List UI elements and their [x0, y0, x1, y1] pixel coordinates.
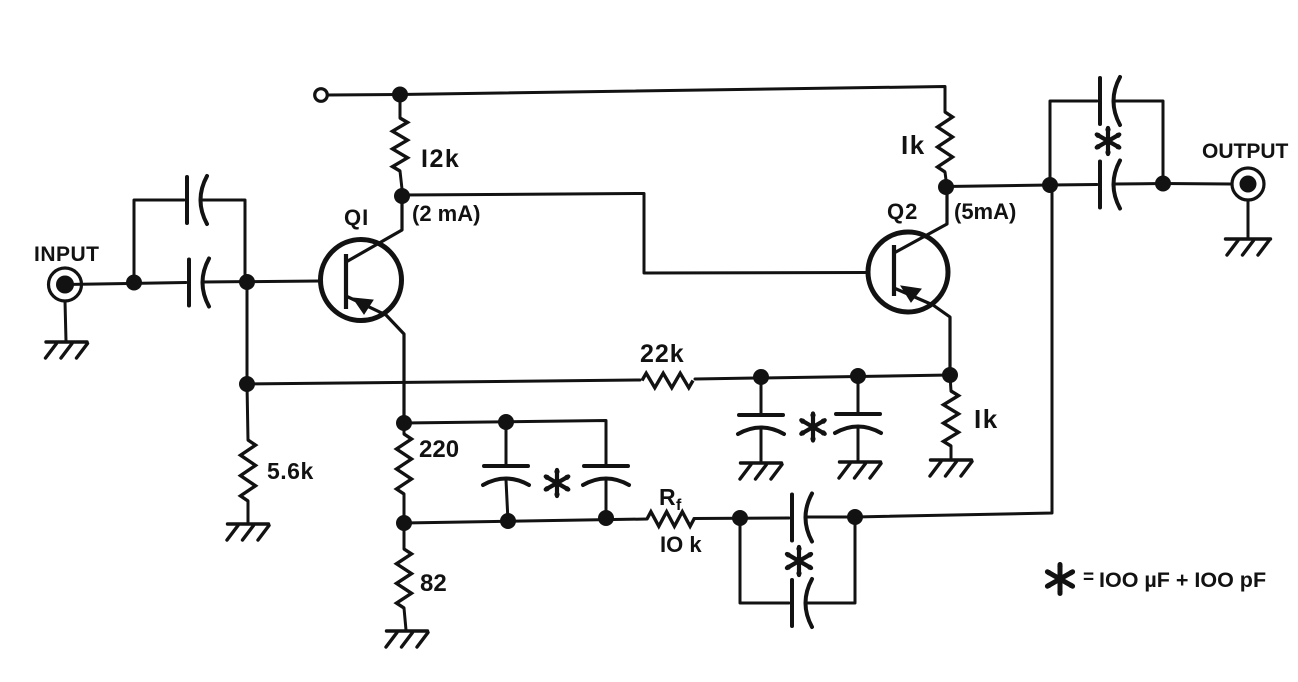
input jack J1 [49, 268, 82, 301]
node: right cap bottom [598, 510, 614, 526]
node: bypass cap A top [753, 369, 769, 385]
wire: to output feedback vertical [855, 185, 1052, 517]
ground (82) [387, 629, 428, 632]
capacitor bypass B [835, 376, 881, 461]
node: supply/12k junction [392, 87, 408, 103]
svg-text:=: = [1083, 567, 1094, 588]
legend star [1046, 564, 1073, 595]
capacitor pair left B [583, 466, 629, 518]
ground (bypass B) [840, 460, 881, 463]
resistor 22k [642, 373, 693, 388]
capacitor pair left A [483, 422, 529, 521]
star mark between bypass caps [800, 413, 826, 442]
node: output junction [1042, 177, 1058, 193]
node: series cap pair left [732, 510, 748, 526]
node: input split [126, 275, 142, 291]
ground (output jack) [1226, 237, 1271, 240]
wire: series cap to right node [806, 516, 855, 519]
svg-text:220: 220 [419, 436, 459, 463]
capacitor C1 (series input, lower) [187, 260, 191, 306]
node: left cap top [498, 414, 514, 430]
resistor 12k [393, 95, 408, 190]
resistor Rf 10k [647, 512, 694, 527]
svg-text:IOO µF + IOO pF: IOO µF + IOO pF [1099, 568, 1266, 592]
resistor 82 [397, 523, 412, 630]
node: series cap pair right [847, 509, 863, 525]
wire: 22k to Q2 emitter node [695, 375, 950, 379]
wire: feedback node to 22k [247, 380, 640, 384]
svg-text:I2k: I2k [421, 145, 460, 173]
node: 220/82 junction [396, 515, 412, 531]
svg-text:R: R [659, 484, 676, 510]
node: Q2 emitter / 1k [942, 367, 958, 383]
svg-text:OUTPUT: OUTPUT [1202, 140, 1289, 163]
wire: 10k to series cap [694, 517, 789, 521]
star mark lower feedback pair [786, 546, 813, 576]
svg-text:QI: QI [344, 205, 369, 230]
ground (bypass A) [741, 461, 782, 464]
wire: output jack to ground [1247, 200, 1250, 238]
transistor Q2 [868, 190, 950, 375]
star mark between left caps [545, 469, 570, 497]
star mark output pair [1096, 127, 1121, 155]
power terminal (open circle) [315, 89, 328, 102]
wire: supply rail [328, 87, 946, 107]
wire: upper cap branch right side [201, 200, 245, 282]
ground (1k emitter) [931, 458, 972, 461]
node: output right junction [1155, 176, 1171, 192]
svg-text:5.6k: 5.6k [267, 458, 314, 484]
capacitor C2 (input bypass, upper) [185, 177, 189, 223]
svg-text:22k: 22k [640, 340, 685, 368]
ground (5.6k) [228, 522, 269, 525]
capacitor feedback lower branch [740, 517, 855, 627]
wire: input jack to C1 [65, 283, 186, 285]
wire: C1 to Q1 base [203, 281, 320, 282]
resistor 1k (collector load) [938, 106, 953, 180]
wire: Q1 collector to Q2 base [402, 194, 866, 274]
svg-text:INPUT: INPUT [34, 243, 100, 266]
svg-text:Ik: Ik [901, 130, 926, 160]
svg-text:IO k: IO k [660, 532, 702, 557]
capacitor output series (main) [1050, 161, 1163, 209]
node: bypass cap B top [850, 368, 866, 384]
node: Q1 base join [239, 274, 255, 290]
node: Q2 collector (5mA) [938, 179, 954, 195]
svg-text:f: f [676, 497, 682, 514]
node: feedback left [239, 376, 255, 392]
capacitor feedback series (upper) [790, 495, 794, 541]
resistor 1k (Q2 emitter) [944, 375, 959, 459]
ground (input jack) [46, 340, 87, 343]
wire: upper branch right [1114, 101, 1163, 183]
wire: 220/82 junction to 10k [404, 519, 647, 523]
svg-text:(2 mA): (2 mA) [412, 201, 480, 226]
node: Q1 collector (2mA) [394, 188, 410, 204]
svg-text:82: 82 [420, 570, 447, 597]
wire: Q2 collector node to output node [946, 185, 1050, 187]
wire: base node down to feedback node [246, 282, 249, 384]
output jack J2 [1232, 168, 1264, 200]
wire: input jack to ground [65, 301, 66, 341]
svg-text:(5mA): (5mA) [954, 199, 1016, 224]
wire: to output jack [1163, 182, 1231, 186]
capacitor bypass A [738, 377, 784, 462]
node: left cap bottom [500, 513, 516, 529]
resistor 5.6k [241, 384, 256, 523]
wire: 220 top to cap pair [404, 421, 606, 467]
resistor 220 [397, 423, 412, 523]
wire: output upper cap branch [1050, 101, 1097, 185]
svg-text:Ik: Ik [974, 404, 999, 434]
node: Q1 emitter / 220 top [396, 415, 412, 431]
capacitor output upper [1098, 78, 1102, 124]
svg-text:Q2: Q2 [887, 199, 918, 224]
transistor Q1 [321, 196, 405, 423]
wire: upper cap branch [134, 200, 184, 282]
